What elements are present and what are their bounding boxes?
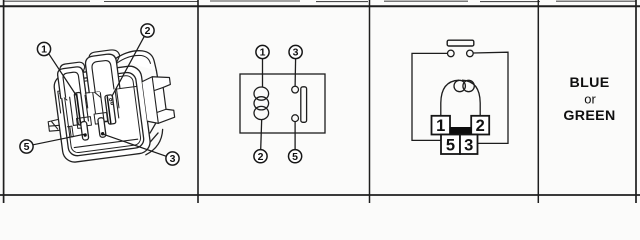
contact fixed point bottom bbox=[292, 115, 299, 122]
terminal block pin 5 bbox=[441, 135, 460, 155]
callout 1 bbox=[37, 42, 77, 96]
svg-text:1: 1 bbox=[41, 44, 47, 56]
switch contact point right bbox=[467, 50, 474, 57]
svg-text:2: 2 bbox=[145, 25, 151, 37]
terminal block bridge bar bbox=[450, 127, 472, 135]
node 1 bbox=[256, 45, 269, 58]
terminal 1 pedestal bbox=[58, 88, 88, 113]
coil L bbox=[254, 87, 269, 120]
wire lead 2 bbox=[261, 119, 262, 150]
terminal block pin 2 bbox=[471, 116, 489, 135]
callout 2 bbox=[112, 24, 154, 97]
terminal block pin 1 bbox=[432, 116, 451, 135]
terminal 2 pedestal bbox=[92, 87, 119, 113]
svg-text:or: or bbox=[584, 92, 596, 107]
contact fixed point top bbox=[292, 86, 299, 93]
svg-text:2: 2 bbox=[258, 151, 264, 163]
terminal 5 blade bbox=[76, 117, 93, 141]
coil L2 bbox=[441, 80, 480, 116]
svg-text:5: 5 bbox=[446, 136, 455, 154]
relay mounting tab bbox=[142, 75, 175, 125]
wire lead 1 bbox=[262, 59, 264, 88]
svg-text:5: 5 bbox=[24, 141, 30, 153]
callout 3 bbox=[102, 134, 179, 165]
callout 5 bbox=[20, 134, 84, 153]
wire color label bbox=[563, 75, 615, 124]
node 5 bbox=[289, 150, 302, 163]
wire right branch bbox=[473, 52, 508, 143]
svg-text:3: 3 bbox=[170, 153, 176, 165]
switch contact bar bbox=[447, 40, 474, 46]
svg-text:GREEN: GREEN bbox=[563, 108, 615, 124]
relay body outline bbox=[40, 48, 168, 166]
node 2 bbox=[254, 150, 267, 163]
terminal block pin 3 bbox=[460, 135, 478, 155]
contact blade bar bbox=[301, 87, 307, 123]
svg-text:3: 3 bbox=[464, 136, 473, 154]
wire lead 3 bbox=[294, 59, 297, 87]
node 3 bbox=[289, 45, 302, 58]
relay inner rim bbox=[59, 71, 145, 156]
relay cover channel A bbox=[56, 62, 88, 99]
switch contact point left bbox=[448, 50, 455, 57]
wire lead 5 bbox=[294, 122, 296, 150]
svg-text:1: 1 bbox=[436, 117, 445, 135]
svg-text:1: 1 bbox=[260, 47, 266, 59]
svg-text:3: 3 bbox=[293, 47, 299, 59]
relay cover channel B bbox=[84, 49, 124, 93]
terminal 3 blade bbox=[66, 113, 109, 142]
relay outline box bbox=[240, 74, 325, 133]
svg-text:5: 5 bbox=[292, 151, 298, 163]
svg-text:2: 2 bbox=[476, 117, 485, 135]
wire left branch bbox=[412, 53, 447, 140]
svg-text:BLUE: BLUE bbox=[569, 75, 609, 91]
terminal 2 blade bbox=[100, 90, 119, 125]
terminal 1 blade bbox=[69, 92, 89, 126]
